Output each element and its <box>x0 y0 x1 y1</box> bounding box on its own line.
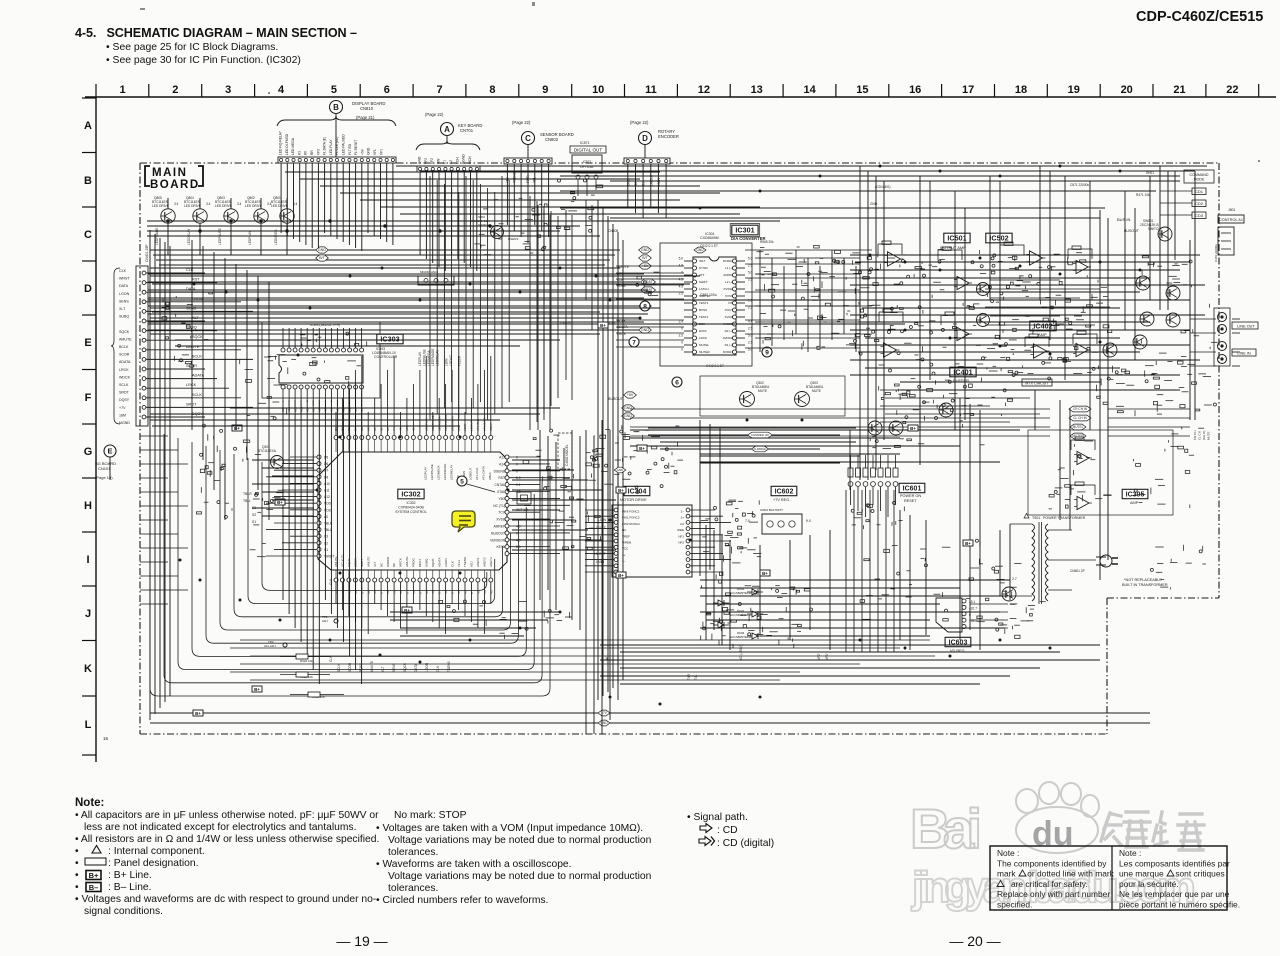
svg-text:A10: A10 <box>299 406 303 412</box>
IC301 right pins <box>733 259 737 354</box>
connector circle C <box>522 132 535 145</box>
svg-text:LED DRIVE: LED DRIVE <box>245 204 262 208</box>
svg-text:IC302: IC302 <box>401 490 420 499</box>
svg-text:A1: A1 <box>373 427 377 431</box>
output amp passives upper <box>859 250 1024 314</box>
svg-text:3.4: 3.4 <box>293 202 298 206</box>
IC303 internal labels <box>291 358 361 386</box>
LED driver collector bus <box>147 221 600 236</box>
svg-text:AKEY1: AKEY1 <box>476 557 480 567</box>
mid left fill parts <box>240 355 288 420</box>
svg-text:: Internal component.: : Internal component. <box>108 846 205 857</box>
transistor Q801 labels <box>271 196 298 208</box>
IC301 input wires <box>616 266 684 347</box>
svg-text:MUTEL: MUTEL <box>1073 425 1084 429</box>
svg-text:WREB: WREB <box>622 541 631 545</box>
svg-text:LOBOUT: LOBOUT <box>469 467 473 480</box>
svg-text:S84FSD: S84FSD <box>699 294 711 298</box>
svg-text:+7V REG.: +7V REG. <box>773 498 790 502</box>
svg-text:5.0: 5.0 <box>748 271 753 275</box>
bottom bus signal labels <box>337 661 451 672</box>
connector circle E <box>104 445 116 457</box>
svg-text:B+: B+ <box>195 711 201 716</box>
net +5V <box>639 263 652 269</box>
svg-text:AMP: AMP <box>1038 332 1047 337</box>
svg-text:ADJ: ADJ <box>470 561 474 567</box>
left bus verticals <box>150 230 170 720</box>
svg-text:RST: RST <box>498 476 505 480</box>
svg-text:K3: K3 <box>297 151 301 155</box>
connector CN401 pins <box>142 271 146 419</box>
svg-text:11: 11 <box>645 84 657 96</box>
svg-text:B+: B+ <box>618 573 624 578</box>
svg-text:D6: D6 <box>324 462 328 466</box>
svg-text:LED DI-FMSD: LED DI-FMSD <box>285 133 289 155</box>
grid ruler column ticks <box>96 84 1259 97</box>
svg-text:VF2: VF2 <box>316 149 320 155</box>
svg-text:4-5. SCHEMATIC DIAGRAM – MAI: 4-5. SCHEMATIC DIAGRAM – MAIN SECTION – <box>75 26 357 40</box>
op-amp IC402 B <box>1073 343 1091 356</box>
svg-text:AMUTE: AMUTE <box>370 661 374 672</box>
svg-text:BCLK: BCLK <box>192 354 202 358</box>
net SDAT <box>641 287 656 293</box>
svg-text:WFCK: WFCK <box>399 558 403 567</box>
svg-text:MUTE: MUTE <box>812 389 821 393</box>
svg-text:6: 6 <box>384 84 390 96</box>
svg-text:MUTE: MUTE <box>1207 432 1211 441</box>
svg-text:B/T: B/T <box>642 256 648 260</box>
svg-text:SRDT: SRDT <box>186 402 197 406</box>
op-amp IC501 C <box>881 343 900 357</box>
svg-text:LED PAUSED: LED PAUSED <box>342 134 346 155</box>
IC303 bottom long wires <box>283 400 362 684</box>
IC302 top pin stubs <box>336 440 491 452</box>
nested bus loops lower left <box>150 430 550 696</box>
svg-text:ATT: ATT <box>699 273 705 277</box>
svg-text:FIN1 FONC2: FIN1 FONC2 <box>622 516 640 520</box>
right side horizontal rails <box>630 255 1205 462</box>
digital out wires <box>578 179 596 196</box>
svg-text:Voltage variations may be note: Voltage variations may be noted due to n… <box>388 835 652 846</box>
IC502 area parts 2 <box>1003 275 1111 334</box>
svg-text:LED PLAY: LED PLAY <box>329 139 333 155</box>
mute circuit frame <box>700 376 845 416</box>
svg-text:LEDDELAY: LEDDELAY <box>450 416 454 431</box>
svg-text:DSENS: DSENS <box>494 469 506 473</box>
SW801 labels <box>1140 219 1161 231</box>
svg-text:22: 22 <box>1226 84 1238 96</box>
wire from circle 5 <box>467 484 495 492</box>
power area labels <box>730 587 753 639</box>
wire C to connector <box>527 144 529 158</box>
grid ruler row letters <box>84 120 93 731</box>
svg-text:MDA5P AM-5: MDA5P AM-5 <box>420 270 438 274</box>
transistor Q507 mute <box>1140 312 1154 326</box>
svg-text:6: 6 <box>675 379 679 386</box>
svg-text:I: I <box>86 554 89 566</box>
right of IC302 verticals <box>540 430 580 630</box>
test point TP2 AFL ADJ <box>264 640 287 648</box>
CLK vertical labels <box>329 578 333 662</box>
TBLR TBLL stub labels <box>243 492 256 524</box>
svg-text:C412 0.1 ET: C412 0.1 ET <box>706 364 724 368</box>
svg-text:D9: D9 <box>324 475 328 479</box>
svg-text:S2: S2 <box>252 513 256 517</box>
main board boundary bottom <box>140 733 1107 735</box>
svg-text:9.0: 9.0 <box>806 519 811 523</box>
svg-text:POWER ON: POWER ON <box>900 494 921 498</box>
svg-text:1–: 1– <box>622 559 626 563</box>
net label <box>1069 415 1091 421</box>
main board designation label <box>145 166 203 191</box>
notes left column <box>75 810 379 917</box>
svg-text:D: D <box>642 134 648 143</box>
svg-text:SCOR: SCOR <box>119 353 130 357</box>
svg-text:A: A <box>84 120 92 132</box>
IC301 pin names <box>699 259 734 354</box>
svg-text:LCH: LCH <box>455 157 459 164</box>
svg-text:+5V: +5V <box>360 148 364 155</box>
svg-text:une marque sont critiques: une marque sont critiques <box>1119 869 1225 879</box>
IC302 bottom pin stubs <box>336 570 491 578</box>
mid horizontal bus group <box>148 274 648 330</box>
svg-text:1+: 1+ <box>622 553 626 557</box>
connector CN405 rotary <box>624 158 670 164</box>
op-amp IC501 B <box>1027 251 1046 265</box>
digital out area parts <box>557 179 603 232</box>
svg-text:2.7: 2.7 <box>1012 577 1017 581</box>
svg-text:0: 0 <box>681 341 683 345</box>
svg-text:G: G <box>84 446 93 458</box>
svg-text:4.9: 4.9 <box>679 278 684 282</box>
svg-text:A11: A11 <box>324 489 330 493</box>
left of IC302 wires <box>250 490 286 557</box>
svg-text:: CD (digital): : CD (digital) <box>717 838 774 849</box>
svg-text:KEYA: KEYA <box>496 545 505 549</box>
svg-text:C381 22000u: C381 22000u <box>1214 244 1218 262</box>
line out jack <box>1218 313 1227 334</box>
svg-text:B+: B+ <box>618 488 624 493</box>
left mid parts <box>197 463 233 519</box>
op-amp IC401 A <box>954 327 972 340</box>
svg-text:1.6: 1.6 <box>748 299 753 303</box>
safety note warning triangles english <box>997 870 1026 887</box>
svg-text:SCLK (T): SCLK (T) <box>341 554 345 567</box>
svg-text:CONTROL A1: CONTROL A1 <box>1219 218 1243 222</box>
svg-text:10: 10 <box>592 84 604 96</box>
svg-text:LED DRIVE: LED DRIVE <box>152 204 169 208</box>
svg-text:LMOUT: LMOUT <box>594 552 606 556</box>
notes middle column <box>376 810 652 906</box>
left column stub wires <box>140 436 188 604</box>
waveform circle 9 <box>762 347 772 357</box>
resistor network R819 area <box>162 292 213 332</box>
net GND <box>639 247 652 253</box>
svg-text:LEDMEGA: LEDMEGA <box>436 465 440 480</box>
svg-text:mark or dotted line with m: mark or dotted line with mark <box>997 869 1115 879</box>
svg-text:C: C <box>84 229 92 241</box>
signal path arrow CD digital <box>699 837 715 846</box>
svg-text:BUSOUT: BUSOUT <box>608 397 624 401</box>
svg-text:GND: GND <box>617 468 625 472</box>
svg-text:A2: A2 <box>379 427 383 431</box>
IC302 bottom pin values <box>335 590 494 594</box>
svg-text:FL CLK (CL): FL CLK (CL) <box>335 137 339 155</box>
svg-text:A1: A1 <box>342 408 346 412</box>
J801 control connector <box>1218 208 1244 223</box>
svg-text:K: K <box>84 663 92 675</box>
IC301 pin stubs right <box>737 261 745 352</box>
right of IC302 verticals extra <box>538 200 592 430</box>
svg-text:B/T: B/T <box>319 256 325 260</box>
svg-text:4.9: 4.9 <box>679 264 684 268</box>
svg-text:FL DATA (E): FL DATA (E) <box>323 137 327 155</box>
svg-text:G1: G1 <box>341 427 345 431</box>
svg-text:5: 5 <box>331 84 337 96</box>
svg-text:19: 19 <box>1068 84 1080 96</box>
display to IC302 vertical bundle <box>430 176 509 420</box>
line out label <box>1232 322 1258 329</box>
signal path legend <box>687 812 774 849</box>
svg-text:L1 (+): L1 (+) <box>725 266 733 270</box>
waveform circle 8 <box>640 301 650 311</box>
watermark url text <box>911 863 1196 912</box>
svg-text:S3: S3 <box>324 535 328 539</box>
svg-text:18: 18 <box>1015 84 1027 96</box>
svg-text:GND: GND <box>696 248 704 252</box>
key connector pin labels <box>418 154 472 164</box>
IC603 pins <box>962 599 966 629</box>
svg-text:NF2: NF2 <box>678 541 684 545</box>
sensor connector wires <box>507 164 548 243</box>
svg-text:— 20 —: — 20 — <box>949 933 1000 949</box>
right margin parts <box>1192 304 1218 429</box>
svg-text:4: 4 <box>278 84 285 96</box>
IC602 reference label <box>771 486 797 495</box>
main board boundary right step vertical <box>1106 598 1108 734</box>
rotary pin labels <box>627 174 661 186</box>
grid ruler top line <box>85 96 1276 98</box>
svg-text:BUSOUT: BUSOUT <box>1124 229 1140 233</box>
svg-text:IC501: IC501 <box>947 234 966 243</box>
svg-text:SQCK: SQCK <box>192 335 203 339</box>
Baidu watermark chinese character yan <box>1153 812 1204 850</box>
svg-text:LED DRIVE: LED DRIVE <box>271 204 288 208</box>
svg-text:•: • <box>75 846 79 857</box>
svg-text:A4: A4 <box>392 427 396 431</box>
IC305 passives <box>1049 441 1112 509</box>
headphone area frame <box>1028 430 1173 515</box>
crystal X301 block <box>517 492 531 504</box>
svg-text:B+: B+ <box>234 426 240 431</box>
IC301 body <box>693 257 736 355</box>
op-amp IC305 <box>1074 496 1092 509</box>
svg-text:F: F <box>85 392 92 404</box>
svg-text:CLK: CLK <box>186 268 194 272</box>
op-amp feedback loops <box>878 241 1097 495</box>
svg-text:SQCK: SQCK <box>431 558 435 567</box>
svg-text:17: 17 <box>962 84 974 96</box>
svg-text:B: B <box>84 175 92 187</box>
svg-text:T901: T901 <box>1032 516 1040 520</box>
line out filters <box>1126 330 1195 388</box>
IC303 bottom pins <box>281 385 364 389</box>
svg-text:• Signal path.: • Signal path. <box>687 812 748 823</box>
svg-text:LEDFMADE: LEDFMADE <box>443 464 447 480</box>
control jack body <box>1218 227 1234 255</box>
svg-text:XLT: XLT <box>381 666 385 672</box>
svg-text:A0: A0 <box>366 427 370 431</box>
svg-text:CN802: CN802 <box>545 137 559 142</box>
sensor connector pin labels <box>506 171 537 183</box>
svg-text:VF1′: VF1′ <box>825 653 829 660</box>
svg-text:XTAL: XTAL <box>497 490 505 494</box>
op-amp IC502 B <box>954 276 972 289</box>
MDA5P connector <box>418 270 454 285</box>
waveform circle 7 <box>629 337 639 347</box>
connector circle B <box>330 101 343 114</box>
svg-text:S2: S2 <box>634 182 638 186</box>
svg-text:13: 13 <box>751 84 763 96</box>
wire B to connector <box>335 113 337 157</box>
power area extra wires <box>600 580 1100 684</box>
key connector wires down <box>420 172 477 271</box>
svg-text:MOTOR DRIVE: MOTOR DRIVE <box>620 498 647 502</box>
svg-text:FLT ED: FLT ED <box>348 143 352 155</box>
svg-text:CNTAL: CNTAL <box>494 483 505 487</box>
transistor Q303 mute <box>795 392 810 407</box>
B+ line symbol <box>86 871 101 881</box>
bottom long bus wires <box>150 713 1150 723</box>
svg-text:C4602 MODEL: C4602 MODEL <box>565 444 569 466</box>
right bottom verticals <box>846 490 894 652</box>
svg-text:R2 (+): R2 (+) <box>725 329 733 333</box>
svg-text:IC601: IC601 <box>903 486 922 493</box>
svg-text:SUBQ: SUBQ <box>425 558 429 567</box>
svg-text:K6: K6 <box>304 151 308 155</box>
svg-text:IC602: IC602 <box>775 489 794 496</box>
svg-text:Les composants identifiés par: Les composants identifiés par <box>1119 858 1230 868</box>
svg-text:AVDDR: AVDDR <box>723 336 734 340</box>
svg-text:MAIN: MAIN <box>152 167 187 179</box>
display board bracket <box>277 116 396 126</box>
BG board note <box>95 461 116 480</box>
transistor S802 switch <box>491 226 504 239</box>
svg-text:Bai: Bai <box>910 797 982 860</box>
svg-text:CN601 2P: CN601 2P <box>1070 569 1085 573</box>
IC303 top wires <box>283 328 362 348</box>
svg-text:DATA: DATA <box>119 284 129 288</box>
svg-text:POWER TRANSFORMER: POWER TRANSFORMER <box>1043 516 1086 520</box>
svg-text:J801: J801 <box>1228 208 1235 212</box>
rotary encoder note <box>630 120 679 139</box>
svg-text:: CD: : CD <box>717 825 738 836</box>
transistor Q503 buffer <box>977 283 990 296</box>
svg-text:GND: GND <box>367 147 371 155</box>
main board boundary left <box>139 163 141 734</box>
command mode box <box>1184 170 1214 183</box>
transistor Q302 mute <box>740 392 755 407</box>
grid ruler left line <box>95 97 97 762</box>
svg-text:CL CH: CL CH <box>1198 431 1202 440</box>
safety note box frame <box>990 846 1227 910</box>
svg-text:S1: S1 <box>324 548 328 552</box>
panel designation symbol <box>85 858 106 865</box>
MTX circuit box <box>1022 379 1052 386</box>
svg-text:B+: B+ <box>639 446 645 451</box>
near transformer parts <box>986 564 1046 617</box>
IC302 left pin labels and wires <box>266 457 317 556</box>
svg-text:A0: A0 <box>324 515 328 519</box>
svg-text:+5V: +5V <box>627 393 634 397</box>
wire from E <box>109 457 111 480</box>
IC301 output ladder parts <box>760 250 864 349</box>
IC302 bottom pin vertical labels <box>334 554 493 567</box>
svg-text:9: 9 <box>542 84 548 96</box>
svg-text:A10: A10 <box>324 482 330 486</box>
svg-text:LGIN: LGIN <box>444 358 448 366</box>
svg-text:WRST: WRST <box>119 277 130 281</box>
net GND <box>316 247 329 253</box>
connector circle A <box>441 123 454 136</box>
svg-text:less are not indicated except: less are not indicated except for electr… <box>84 822 356 833</box>
svg-text:LEDFMADE: LEDFMADE <box>444 415 448 431</box>
svg-text:E: E <box>84 337 91 349</box>
svg-text:MUTER: MUTER <box>699 350 710 354</box>
svg-text:14: 14 <box>803 84 816 96</box>
svg-text:LEDPLAY: LEDPLAY <box>424 467 428 480</box>
svg-text:LMIN: LMIN <box>596 560 605 564</box>
svg-text:7: 7 <box>632 339 636 346</box>
IC303 top pin labels <box>300 332 367 346</box>
svg-text:• Voltages and waveforms are d: • Voltages and waveforms are dc with res… <box>75 894 376 905</box>
bottom mid horizontal wires <box>230 640 935 680</box>
svg-text:VERSION: VERSION <box>490 538 505 542</box>
mode switch wires <box>1160 191 1192 215</box>
rectifier cluster wires <box>970 604 1008 628</box>
svg-text:R322 10k: R322 10k <box>300 659 313 663</box>
op-amp IC306 <box>1074 451 1092 464</box>
bus junction dots <box>179 165 1142 706</box>
top right bus bundle <box>396 166 1207 218</box>
svg-text:3.4: 3.4 <box>206 202 211 206</box>
svg-text:• All resistors are in Ω and 1: • All resistors are in Ω and 1/4W or les… <box>75 834 379 845</box>
svg-text:2: 2 <box>172 84 178 96</box>
svg-text:RSENS: RSENS <box>508 237 518 241</box>
svg-text:SUBQ: SUBQ <box>119 315 129 319</box>
AC plug <box>1096 555 1118 567</box>
IC602 caps <box>725 500 762 557</box>
IC401 area parts 2 <box>889 367 1013 419</box>
transistor Q803 labels <box>215 196 242 208</box>
svg-text:BUS IN: BUS IN <box>1117 217 1130 222</box>
IC301 reference label <box>730 224 760 237</box>
svg-text:L2 (+): L2 (+) <box>725 280 733 284</box>
svg-text:AVDDL: AVDDL <box>723 273 733 277</box>
wire A to connector <box>446 135 448 144</box>
safety note english text <box>997 848 1115 910</box>
svg-text:Replace only with part number: Replace only with part number <box>997 889 1110 899</box>
svg-text:3.4: 3.4 <box>237 202 242 206</box>
svg-text:D: D <box>84 283 92 295</box>
svg-text:CD2: CD2 <box>1195 201 1204 206</box>
svg-text:(Page 22): (Page 22) <box>425 112 444 117</box>
main board boundary right step horizontal <box>1107 597 1219 599</box>
mute to motor drive band wires <box>648 428 860 463</box>
svg-text:SCLK: SCLK <box>119 383 129 387</box>
svg-text:J: J <box>85 608 91 620</box>
transistor Q505 mute <box>1136 276 1150 290</box>
